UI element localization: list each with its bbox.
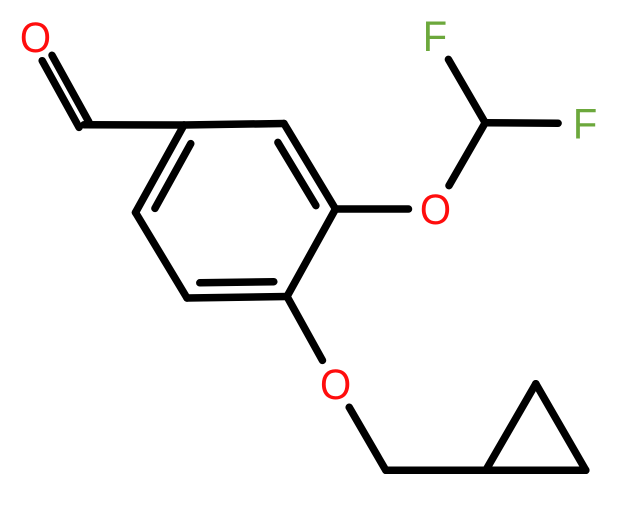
svg-text:O: O	[320, 361, 351, 409]
svg-text:F: F	[423, 13, 447, 61]
svg-text:O: O	[20, 14, 51, 62]
svg-text:O: O	[420, 186, 451, 234]
svg-text:F: F	[573, 100, 597, 148]
